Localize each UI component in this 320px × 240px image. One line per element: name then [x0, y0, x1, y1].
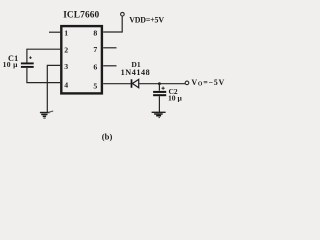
svg-text:10 μ: 10 μ — [168, 94, 182, 103]
IC U1 ICL7660 body — [61, 26, 102, 93]
ground left — [40, 111, 53, 118]
wire pin 5 to D1 — [103, 83, 131, 85]
svg-text:3: 3 — [64, 62, 68, 71]
terminal VDD — [121, 12, 125, 16]
svg-text:2: 2 — [64, 45, 68, 54]
junction node at C2 tap — [158, 82, 161, 85]
wire junction to C2 — [158, 84, 160, 91]
svg-text:VO=−5V: VO=−5V — [191, 78, 225, 88]
pin 6 — [93, 62, 97, 71]
wire C1 bottom to pin 4 — [27, 68, 60, 83]
svg-text:ICL7660: ICL7660 — [63, 10, 99, 20]
svg-text:1: 1 — [64, 29, 68, 38]
pin 8 — [93, 29, 97, 38]
label ICL7660 — [63, 10, 99, 20]
label C2 — [169, 87, 178, 96]
label Vo=-5V — [191, 78, 225, 88]
pin 5 — [93, 82, 97, 91]
label D1 — [131, 60, 140, 69]
wire pin 3 to ground — [47, 65, 60, 112]
wire pin 1 stub — [49, 31, 60, 33]
svg-text:4: 4 — [64, 80, 68, 89]
capacitor C2 — [153, 87, 166, 96]
wire pin 7 stub — [103, 47, 116, 49]
wire D1 to output terminal — [139, 83, 186, 85]
svg-text:VDD=+5V: VDD=+5V — [129, 16, 164, 25]
svg-text:1N4148: 1N4148 — [121, 68, 151, 77]
svg-text:(b): (b) — [102, 131, 113, 141]
svg-text:7: 7 — [93, 45, 97, 54]
terminal Vo output — [185, 81, 189, 85]
ground right — [152, 112, 166, 117]
label VDD=+5V — [129, 16, 164, 25]
wire pin 8 to VDD terminal — [103, 16, 122, 32]
pin 3 — [64, 62, 68, 71]
pin 7 — [93, 45, 97, 54]
pin 2 — [64, 45, 68, 54]
label C2 value 10u — [168, 94, 182, 103]
pin 4 — [64, 80, 68, 89]
svg-text:6: 6 — [93, 62, 97, 71]
wire pin 2 to C1 top — [27, 49, 60, 62]
wire C2 to ground — [158, 96, 160, 112]
capacitor C1 — [21, 56, 34, 67]
label C1 value 10u — [3, 60, 19, 69]
label C1 — [8, 54, 18, 63]
pin 1 — [64, 29, 68, 38]
svg-text:8: 8 — [93, 29, 97, 38]
label 1N4148 — [121, 68, 151, 77]
svg-text:5: 5 — [93, 82, 97, 91]
svg-text:10 μ: 10 μ — [3, 60, 19, 69]
diode D1 — [132, 79, 139, 88]
caption (b) — [102, 131, 113, 141]
wire pin 6 stub — [103, 65, 116, 67]
